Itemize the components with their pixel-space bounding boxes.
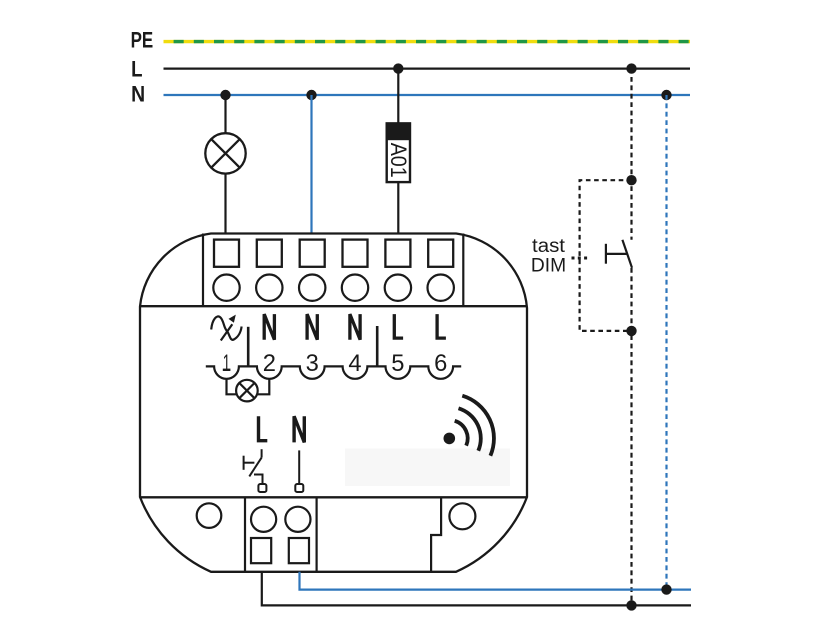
internal switch blade [249, 458, 261, 477]
bottom terminal square N [289, 538, 309, 563]
wire PE bus (yellow/green) [164, 40, 691, 43]
pushbutton S1 actuator [606, 244, 627, 264]
pin square L [258, 484, 266, 492]
label N internal [294, 416, 304, 442]
svg-text:tast: tast [532, 236, 566, 257]
mounting hole left [197, 503, 222, 528]
bottom terminal block walls [245, 497, 317, 572]
svg-text:N: N [131, 82, 145, 107]
terminal 5 clamp square [385, 240, 410, 267]
wire L bus to fuse [397, 69, 399, 124]
svg-text:A01: A01 [386, 143, 411, 178]
internal switch actuator [244, 456, 255, 470]
terminal 6 clamp square [428, 240, 453, 267]
bottom terminal square L [251, 538, 271, 563]
terminal strip side walls [203, 234, 463, 307]
dimmer phase symbol [211, 316, 241, 340]
node junction box bottom [626, 326, 636, 336]
watermark area [345, 449, 510, 487]
dashed enclosure box (tast DIM) [580, 180, 632, 331]
terminal 1 clamp square [214, 240, 239, 267]
terminal 6 entry circle [428, 275, 454, 301]
node junction black wire [626, 600, 636, 610]
node junction box top [626, 175, 636, 185]
svg-text:4: 4 [348, 350, 361, 377]
wire device N out (blue) [300, 572, 692, 590]
label tast DIM [531, 236, 566, 277]
svg-text:2: 2 [263, 350, 276, 377]
wire fuse to terminal 5 [397, 182, 399, 233]
bottom terminal circle N [285, 507, 310, 532]
terminal number 1 base serif [223, 369, 231, 371]
dotted leader to label [572, 257, 589, 260]
wire N bus to terminal 3 (blue) [310, 95, 312, 234]
terminal 2 label N [264, 314, 274, 340]
wire N bus [164, 94, 691, 96]
svg-text:6: 6 [434, 350, 447, 377]
node junction on N bus (blue dashed) [661, 90, 671, 100]
dimmer device outline U1 [140, 234, 527, 572]
svg-text:3: 3 [306, 350, 319, 377]
wire lamp to terminal 1 [224, 174, 226, 234]
mounting hole right [449, 503, 475, 529]
pin square N [295, 484, 303, 492]
node junction on L bus (switch line) [626, 63, 636, 73]
terminal 2 clamp square [257, 240, 282, 267]
terminal 5 label L [394, 314, 403, 338]
terminal 4 entry circle [342, 275, 368, 301]
device inner line bottom [140, 496, 527, 498]
wire terminal 2 to internal lamp [258, 379, 270, 395]
lamp E1 [205, 133, 245, 173]
terminal 4 clamp square [343, 240, 368, 267]
internal separator 1-2 [247, 327, 250, 367]
internal lamp symbol [236, 380, 258, 402]
terminal 4 label N [350, 314, 360, 340]
radio waves [455, 396, 494, 456]
terminal 3 label N [307, 314, 317, 340]
bottom terminal circle L [251, 507, 276, 532]
wire N bus to lamp [224, 95, 226, 133]
svg-text:1: 1 [223, 350, 231, 377]
terminal 2 entry circle [256, 275, 282, 301]
wire dashed N drop (blue) [665, 95, 667, 590]
terminal 6 label L [437, 314, 446, 338]
svg-text:PE: PE [131, 28, 154, 53]
wire L bus [164, 67, 691, 69]
device inner line top [140, 305, 527, 307]
svg-text:DIM: DIM [531, 256, 566, 277]
internal switch jog to pin [254, 475, 263, 485]
case notch [431, 497, 441, 572]
node junction on N bus (terminal 3) [306, 90, 316, 100]
terminal 5 entry circle [385, 275, 411, 301]
radio antenna dot [444, 433, 456, 445]
terminal 3 clamp square [300, 240, 325, 267]
node junction on N bus (lamp) [220, 90, 230, 100]
svg-text:L: L [131, 57, 142, 82]
svg-text:5: 5 [391, 350, 404, 377]
wire terminal 1 to internal lamp [227, 379, 237, 395]
wire device L out (black) [262, 572, 691, 606]
label L internal [259, 416, 268, 440]
internal N lead [298, 450, 300, 483]
terminal 1 entry circle [213, 275, 239, 301]
terminal 3 entry circle [299, 275, 325, 301]
node junction on L bus (fuse) [393, 63, 403, 73]
fuse F1 10A [386, 123, 411, 182]
wire dashed L drop (lower) [630, 268, 632, 605]
wire dashed L drop (upper) [630, 69, 632, 240]
node junction blue wire [661, 584, 671, 594]
internal separator 4-5 [376, 326, 379, 366]
internal switch lead [261, 449, 263, 457]
pushbutton S1 blade [622, 240, 632, 268]
terminal clamp arc row [206, 366, 461, 378]
